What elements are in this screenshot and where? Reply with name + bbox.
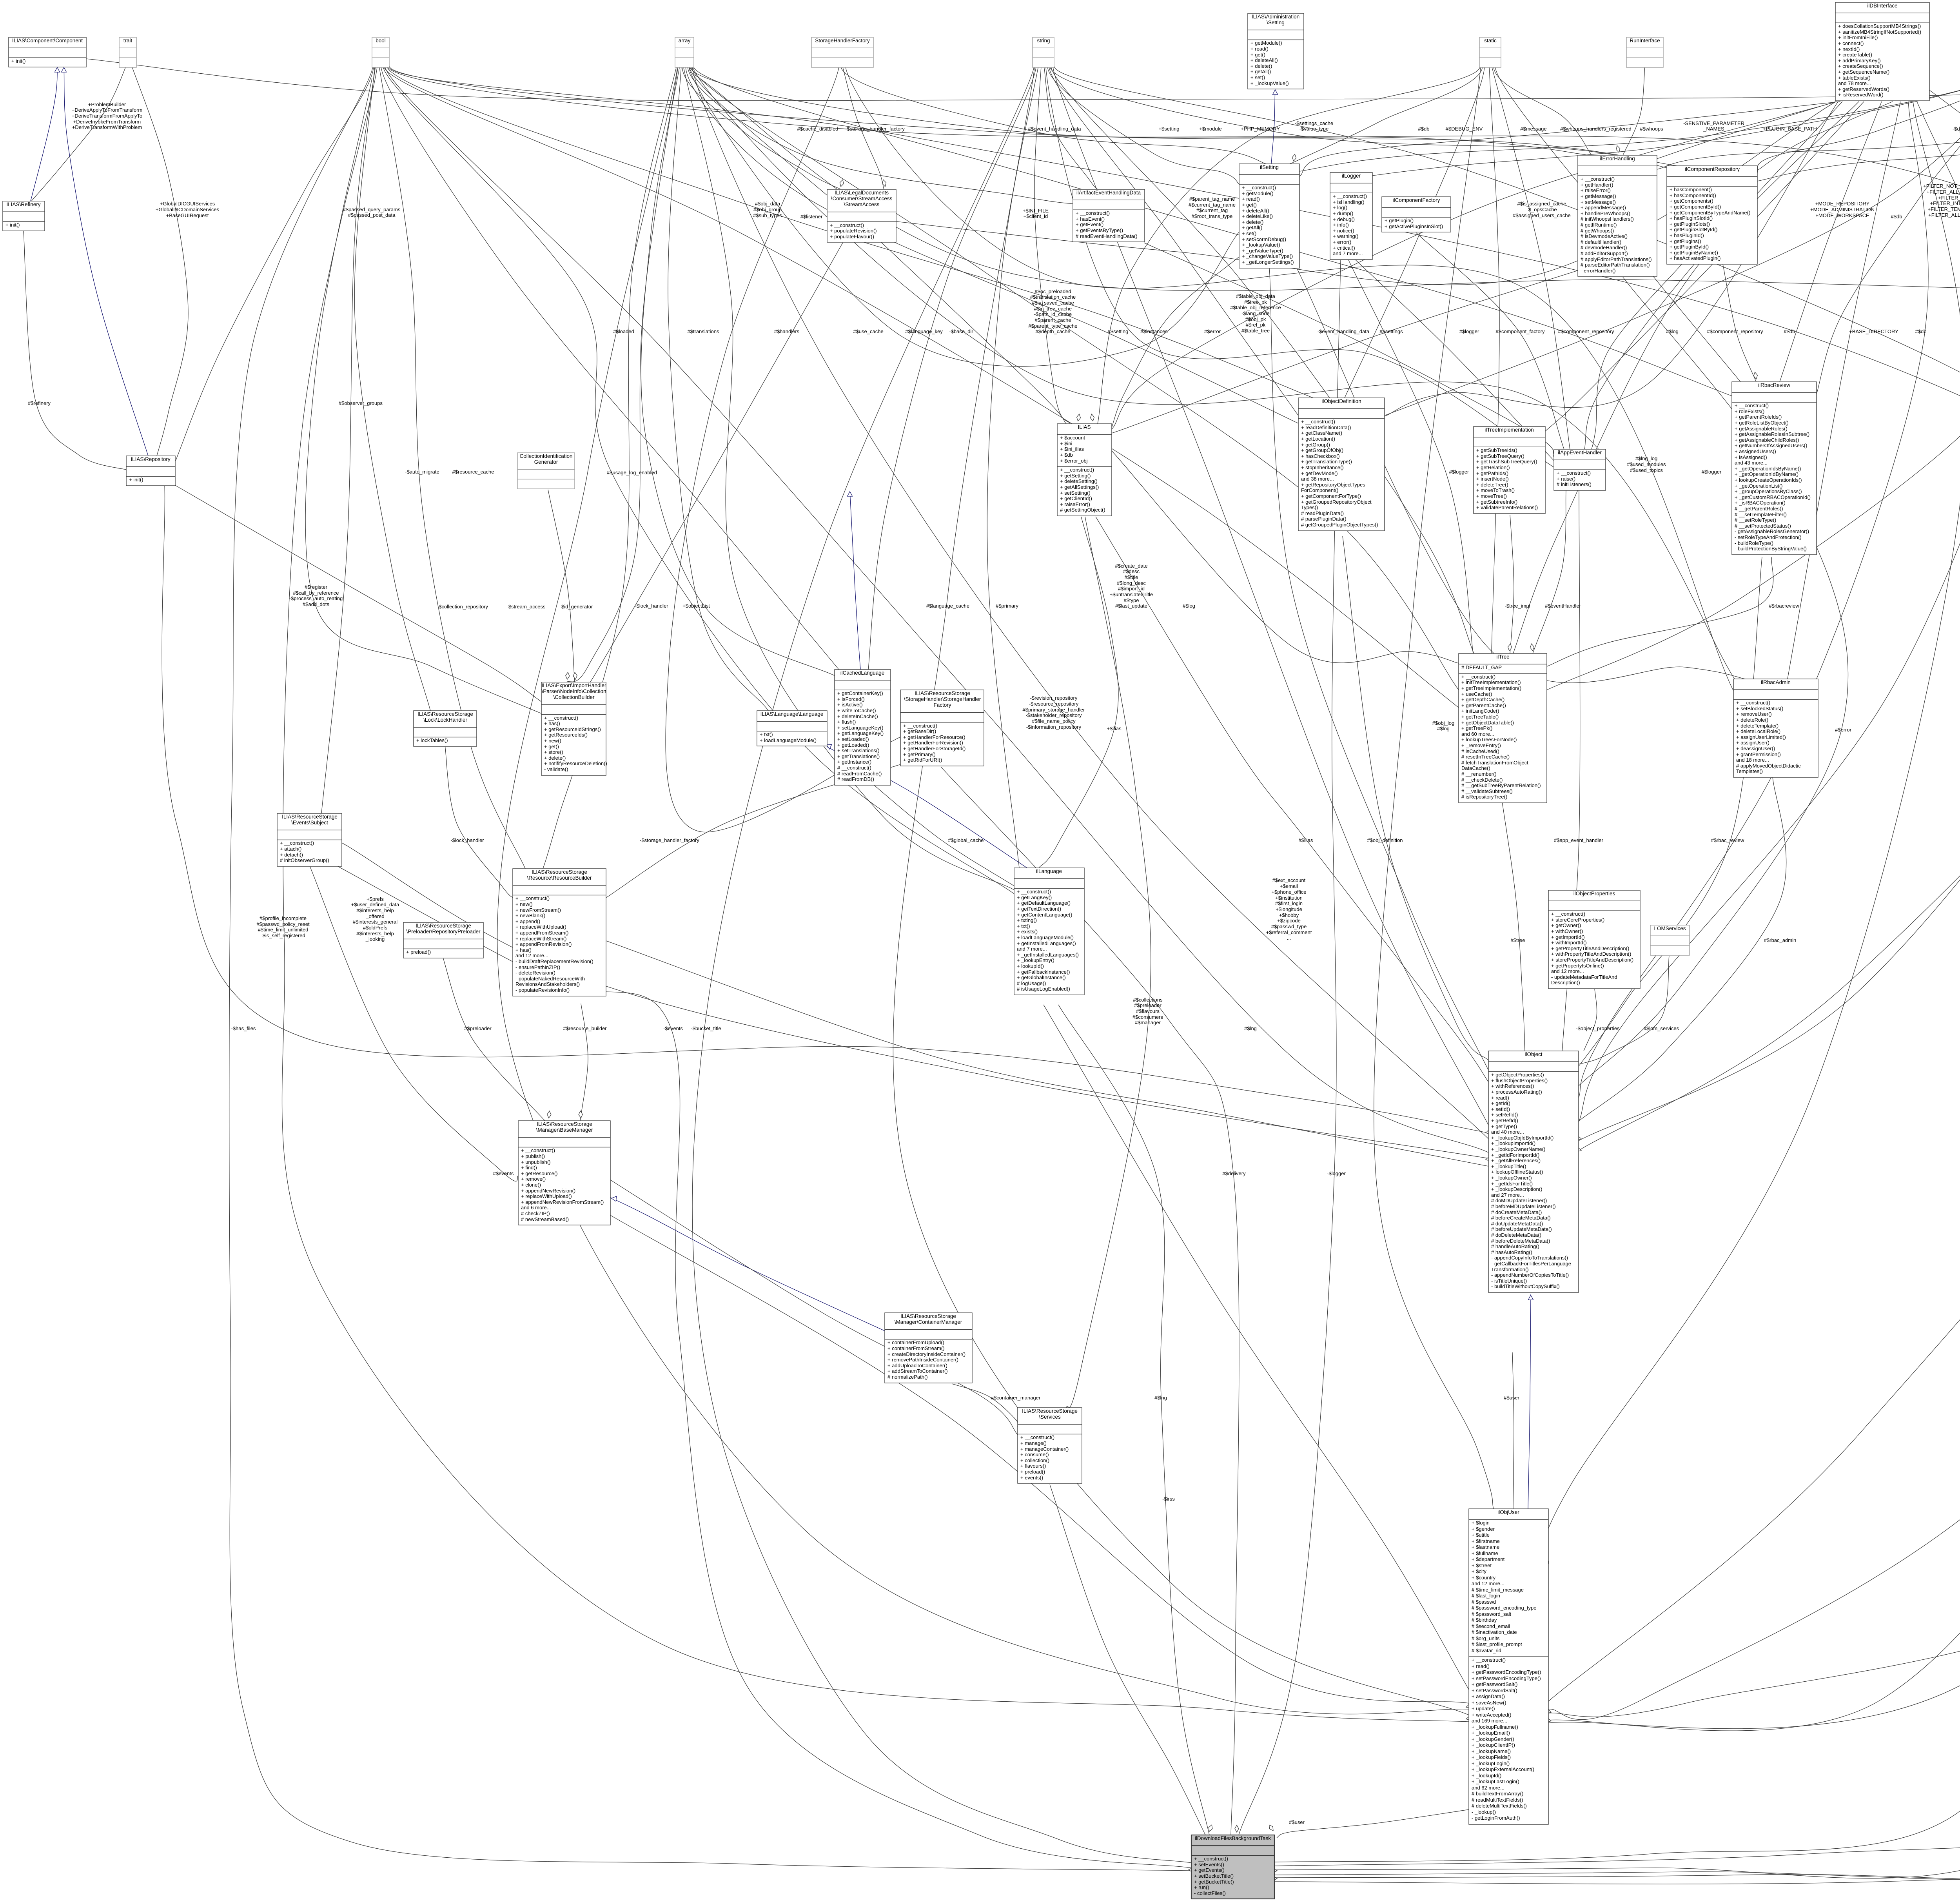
wire ilDBInterface to ilTree <box>1513 102 1859 653</box>
svg-text:+ deleteAll(): + deleteAll() <box>1242 208 1269 214</box>
wire ilErrorHandling to ilObject error <box>1579 277 1848 1086</box>
label +PLUGIN_BASE_PATH <box>1763 126 1817 132</box>
svg-text:+ $city: + $city <box>1472 1568 1486 1574</box>
svg-text:+ getAll(): + getAll() <box>1242 225 1262 230</box>
svg-text:+ getDepthCache(): + getDepthCache() <box>1461 697 1504 702</box>
svg-text:#$time_limit_unlimited: #$time_limit_unlimited <box>258 927 309 933</box>
junction aggregation diamond <box>1530 644 1534 651</box>
svg-text:+ _lookupFullname(): + _lookupFullname() <box>1472 1724 1518 1730</box>
wire band ilDBInterface to ilObjectDefinition <box>1385 102 1838 416</box>
wire const to ilRbacReview <box>1817 67 1960 394</box>
class ILIAS\Refinery <box>3 201 45 231</box>
class ilTree <box>1459 653 1547 803</box>
svg-text:and 12 more...: and 12 more... <box>515 953 548 958</box>
svg-text:+ getBucketTitle(): + getBucketTitle() <box>1194 1879 1234 1885</box>
label -$revision_repository <box>1023 695 1085 730</box>
svg-text:+ getPropertyIsOnline(): + getPropertyIsOnline() <box>1551 963 1604 969</box>
svg-text:#$first_login: #$first_login <box>1275 900 1303 906</box>
svg-text:+ getComponentById(): + getComponentById() <box>1670 204 1721 210</box>
svg-text:+ setMessage(): + setMessage() <box>1581 199 1616 205</box>
svg-text:+ isHandling(): + isHandling() <box>1333 199 1365 205</box>
label #$app_event_handler <box>1554 837 1603 843</box>
svg-text:+ $gender: + $gender <box>1472 1526 1495 1532</box>
svg-text:+ flush(): + flush() <box>837 719 856 725</box>
svg-text:#$in_tree_cache: #$in_tree_cache <box>1034 306 1072 312</box>
svg-text:#$logger: #$logger <box>1449 469 1469 475</box>
svg-text:# $password_salt: # $password_salt <box>1472 1611 1512 1617</box>
svg-text:#$whoops_handlers_registered: #$whoops_handlers_registered <box>1560 126 1631 132</box>
svg-text:+ getHandlerForStorageId(): + getHandlerForStorageId() <box>903 746 965 751</box>
svg-text:+ appendNewRevisionFromStream(: + appendNewRevisionFromStream() <box>521 1199 604 1205</box>
svg-text:+ getDevMode(): + getDevMode() <box>1301 470 1338 476</box>
wire ilLanguage to ilObjUser lng <box>1044 1005 1469 1690</box>
wire const to ilObject table consts <box>1579 67 1960 1141</box>
wire array to ilRbacReview <box>693 66 1732 396</box>
svg-text:+ loadLanguageModule(): + loadLanguageModule() <box>760 737 817 743</box>
svg-text:+ stopInheritance(): + stopInheritance() <box>1301 465 1344 470</box>
svg-text:#$language_key: #$language_key <box>905 328 943 334</box>
svg-text:+ _lookupLastLogin(): + _lookupLastLogin() <box>1472 1779 1519 1784</box>
svg-text:+ assignUserLimited(): + assignUserLimited() <box>1736 734 1786 740</box>
svg-text:- getAssignableRolesGenerator(: - getAssignableRolesGenerator() <box>1735 528 1809 534</box>
svg-text:#$lng_log: #$lng_log <box>1635 456 1657 461</box>
svg-text:+ initTreeImplementation(): + initTreeImplementation() <box>1461 679 1521 685</box>
svg-text:#$resource_cache: #$resource_cache <box>452 469 494 475</box>
svg-text:+ txt(): + txt() <box>1017 923 1030 929</box>
wire LOMServices to ilObject lom_services <box>1579 956 1669 1064</box>
junction aggregation diamond <box>1486 1130 1492 1134</box>
svg-text:+ readDefinitionData(): + readDefinitionData() <box>1301 425 1351 430</box>
svg-text:+ getPluginSlots(): + getPluginSlots() <box>1670 221 1710 227</box>
svg-text:+ getType(): + getType() <box>1491 1123 1517 1129</box>
svg-text:...: ... <box>1287 935 1291 941</box>
svg-text:- updateMetadataForTitleAnd: - updateMetadataForTitleAnd <box>1551 974 1617 980</box>
svg-text:#$lng: #$lng <box>1244 1025 1257 1031</box>
junction inheritance arrow <box>1273 90 1278 94</box>
wire array to ilObjUser <box>497 66 1469 1714</box>
svg-text:+ exists(): + exists() <box>1017 929 1038 935</box>
svg-text:#$interests_help: #$interests_help <box>356 907 394 913</box>
svg-text:+ setId(): + setId() <box>1491 1106 1510 1112</box>
label -$stream_access <box>507 604 546 610</box>
wire array to CollectionBuilder <box>566 66 678 682</box>
svg-text:+ appendMessage(): + appendMessage() <box>1581 205 1626 211</box>
wire ContainerManager to Services container_manager <box>952 1384 1018 1427</box>
svg-text:+ getSubtreeInfo(): + getSubtreeInfo() <box>1476 499 1517 505</box>
svg-text:string: string <box>1037 38 1050 44</box>
svg-text:#$assigned_users_cache: #$assigned_users_cache <box>1513 212 1570 218</box>
wire ilAppEventHandler to ilObject app_event_handler <box>1562 490 1580 1051</box>
svg-text:and 43 more...: and 43 more... <box>1735 460 1768 466</box>
svg-text:#$oldPrefs: #$oldPrefs <box>363 925 388 931</box>
svg-text:ILIAS\Export\ImportHandler: ILIAS\Export\ImportHandler <box>541 682 606 688</box>
svg-text:+ getModule(): + getModule() <box>1250 40 1282 46</box>
svg-text:+ _lookupId(): + _lookupId() <box>1472 1773 1501 1779</box>
svg-text:+ getSubTreeIds(): + getSubTreeIds() <box>1476 447 1517 453</box>
wire ilLanguage extends Language <box>827 747 1027 868</box>
svg-text:+ moveToTrash(): + moveToTrash() <box>1476 487 1515 493</box>
label -$storage_handler_factory <box>640 837 699 843</box>
wire ILIAS to ilObject ilias <box>1096 517 1488 1082</box>
svg-text:# readFromDB(): # readFromDB() <box>837 776 874 782</box>
svg-text:+ hasPluginSlotId(): + hasPluginSlotId() <box>1670 215 1713 221</box>
svg-text:- validate(): - validate() <box>544 766 568 772</box>
svg-text:+ txtlng(): + txtlng() <box>1017 917 1037 923</box>
class ilObjectDefinition <box>1298 398 1385 531</box>
svg-text:#$listener: #$listener <box>800 214 823 220</box>
class ilRbacReview <box>1732 382 1817 555</box>
svg-text:Description(): Description() <box>1551 980 1580 985</box>
label +$ilias <box>1107 726 1122 731</box>
svg-text:+ has(): + has() <box>515 947 532 953</box>
label #$db <box>1891 214 1902 220</box>
svg-text:#$import_id: #$import_id <box>1118 586 1145 592</box>
svg-text:bool: bool <box>376 38 386 44</box>
svg-text:+$user_defined_data: +$user_defined_data <box>351 902 399 907</box>
svg-text:# checkZIP(): # checkZIP() <box>521 1211 550 1216</box>
svg-text:- appendCopyInfoToTranslations: - appendCopyInfoToTranslations() <box>1491 1255 1568 1261</box>
junction aggregation diamond <box>1292 154 1296 161</box>
svg-text:+DeriveTransformFromApplyTo: +DeriveTransformFromApplyTo <box>72 113 142 119</box>
svg-text:+ getObjectDataTable(): + getObjectDataTable() <box>1461 720 1514 726</box>
svg-text:-$has_files: -$has_files <box>231 1025 256 1031</box>
svg-text:#$use_cache: #$use_cache <box>853 328 883 334</box>
svg-text:+ hasActivatedPlugin(): + hasActivatedPlugin() <box>1670 255 1720 261</box>
wire static to ilRbacReview <box>1495 66 1740 382</box>
svg-text:#$component_repository: #$component_repository <box>1707 328 1763 334</box>
svg-text:+ isActive(): + isActive() <box>837 702 863 708</box>
label #$eventHandler <box>1545 603 1581 609</box>
svg-text:+ attach(): + attach() <box>280 846 301 852</box>
svg-text:\Consumer\StreamAccess: \Consumer\StreamAccess <box>831 196 893 201</box>
wire array to ilObject <box>692 66 1488 1139</box>
class ilRbacAdmin <box>1733 679 1818 777</box>
svg-text:+DeriveApplyToFromTransform: +DeriveApplyToFromTransform <box>72 107 142 113</box>
svg-text:+ getRelation(): + getRelation() <box>1476 465 1510 470</box>
svg-text:- populateRevisionInfo(): - populateRevisionInfo() <box>515 987 570 993</box>
wire ilLanguage to task lng <box>1058 1005 1209 1835</box>
svg-text:+ _lookupName(): + _lookupName() <box>1472 1748 1511 1754</box>
svg-text:+ $lastname: + $lastname <box>1472 1544 1499 1550</box>
class Services <box>1018 1408 1082 1483</box>
svg-text:+ getParentRoleIds(): + getParentRoleIds() <box>1735 414 1782 420</box>
svg-text:LOMServices: LOMServices <box>1654 926 1686 931</box>
svg-text:ILIAS\Repository: ILIAS\Repository <box>131 456 171 462</box>
wire array to Language objectList <box>668 66 768 711</box>
svg-text:ILIAS\Refinery: ILIAS\Refinery <box>6 201 40 207</box>
svg-text:+$phone_office: +$phone_office <box>1271 889 1306 895</box>
svg-text:# getGroupedPluginObjectTypes(: # getGroupedPluginObjectTypes() <box>1301 522 1378 528</box>
svg-text:+ manageContainer(): + manageContainer() <box>1020 1446 1069 1452</box>
label #$rbac_admin <box>1764 937 1796 943</box>
svg-text:- isTitleUnique(): - isTitleUnique() <box>1491 1278 1527 1284</box>
label #$obj_definition <box>1367 837 1403 843</box>
class ILIAS\Language\Language <box>757 711 827 746</box>
svg-text:+ _lookupOwnerName(): + _lookupOwnerName() <box>1491 1146 1545 1152</box>
label #$resource_builder <box>563 1025 607 1031</box>
svg-text:+ getRoleListByObject(): + getRoleListByObject() <box>1735 420 1789 426</box>
junction aggregation diamond <box>1754 372 1758 379</box>
label #$user <box>1289 1819 1305 1825</box>
svg-text:- buildTitleWithoutCopySuffix(: - buildTitleWithoutCopySuffix() <box>1491 1283 1560 1289</box>
svg-text:+ replaceWithUpload(): + replaceWithUpload() <box>521 1193 572 1199</box>
wire string to ilObjUser <box>893 66 1469 1715</box>
wire ILIAS to ilLanguage ilias <box>1039 517 1118 868</box>
junction aggregation diamond <box>1270 1877 1277 1880</box>
svg-text:ilCachedLanguage: ilCachedLanguage <box>840 670 885 676</box>
svg-text:+ $account: + $account <box>1060 435 1085 441</box>
svg-text:-$lock_handler: -$lock_handler <box>450 837 484 843</box>
svg-text:+$INI_FILE: +$INI_FILE <box>1023 208 1049 214</box>
svg-text:+ getPasswordSalt(): + getPasswordSalt() <box>1472 1681 1517 1687</box>
svg-text:+ getHandler(): + getHandler() <box>1581 182 1613 188</box>
wire ILIAS\Repository to CollectionBuilder <box>175 485 541 702</box>
svg-text:-$bucket_title: -$bucket_title <box>691 1025 721 1031</box>
svg-text:+ read(): + read() <box>1242 196 1260 202</box>
svg-text:+GlobalDICDomainServices: +GlobalDICDomainServices <box>156 207 220 212</box>
wire band int to ilComponentRepository <box>1757 67 1960 181</box>
junction inheritance arrow <box>55 67 60 72</box>
class Subject <box>277 813 342 866</box>
svg-text:#$cache_disabled: #$cache_disabled <box>797 126 838 132</box>
wire ilObjectDIC to task object_dic <box>1274 234 1960 1862</box>
svg-text:DataCache(): DataCache() <box>1461 765 1490 771</box>
svg-text:ilObjectProperties: ilObjectProperties <box>1573 891 1615 897</box>
svg-text:#$handlers: #$handlers <box>774 328 800 334</box>
class ilArtifactEventHandlingData <box>1073 189 1145 242</box>
wire rail Component to int <box>86 59 1960 101</box>
svg-text:+ _lookupOwner(): + _lookupOwner() <box>1491 1175 1532 1181</box>
svg-text:+$longitude: +$longitude <box>1276 906 1302 912</box>
svg-text:#$translations: #$translations <box>688 328 719 334</box>
svg-text:- collectFiles(): - collectFiles() <box>1194 1890 1226 1896</box>
svg-text:+ getGlobalInstance(): + getGlobalInstance() <box>1017 975 1066 980</box>
svg-text:# $avatar_rid: # $avatar_rid <box>1472 1648 1501 1653</box>
svg-text:+MODE_REPOSITORY: +MODE_REPOSITORY <box>1815 201 1870 207</box>
svg-text:#$depth_cache: #$depth_cache <box>1036 328 1071 334</box>
class LockHandler <box>414 711 477 746</box>
svg-text:# hasAutoRating(): # hasAutoRating() <box>1491 1249 1532 1255</box>
svg-text:+ initFromIniFile(): + initFromIniFile() <box>1838 34 1878 40</box>
wire band ilDBInterface to StreamAccess <box>896 102 1836 285</box>
svg-text:+ getGroup(): + getGroup() <box>1301 442 1330 448</box>
class ilDownloadFilesBackgroundTask <box>1191 1835 1274 1899</box>
junction aggregation diamond <box>1486 1157 1493 1161</box>
wire static to ilSetting <box>1290 66 1483 164</box>
class ILIAS\Component\Component <box>9 37 86 67</box>
svg-text:\CollectionBuilder: \CollectionBuilder <box>553 694 595 700</box>
svg-text:- getCallbackForTitlesPerLangu: - getCallbackForTitlesPerLanguage <box>1491 1261 1571 1267</box>
svg-text:+ getActivePluginsInSlot(): + getActivePluginsInSlot() <box>1385 223 1443 229</box>
svg-text:+ deleteTree(): + deleteTree() <box>1476 482 1508 488</box>
svg-text:+ removeUser(): + removeUser() <box>1736 711 1772 717</box>
label #$handlers <box>774 328 800 334</box>
svg-text:#$parent_tag_name: #$parent_tag_name <box>1189 196 1235 202</box>
svg-text:ilSetting: ilSetting <box>1260 164 1279 170</box>
label #$error <box>1204 328 1221 334</box>
wire bool to task has_files <box>229 66 1191 1871</box>
class ResourceBuilder <box>513 869 606 996</box>
class ILIAS\Repository <box>126 456 175 486</box>
wire ilDBInterface to ILIAS db <box>1112 102 1837 429</box>
svg-text:+ getPathIds(): + getPathIds() <box>1476 470 1508 476</box>
class ilObject <box>1488 1051 1579 1292</box>
svg-text:\Resource\ResourceBuilder: \Resource\ResourceBuilder <box>527 875 592 881</box>
svg-text:ILIAS\Administration: ILIAS\Administration <box>1252 14 1299 20</box>
svg-text:+ getPrimary(): + getPrimary() <box>903 751 936 757</box>
svg-text:+ set(): + set() <box>1250 74 1265 80</box>
class ContainerManager <box>885 1313 972 1383</box>
svg-text:+FILTER_ALL_GLOBAL: +FILTER_ALL_GLOBAL <box>1926 189 1960 195</box>
svg-text:+ _lookupObjIdByImportId(): + _lookupObjIdByImportId() <box>1491 1135 1553 1141</box>
svg-text:+$client_id: +$client_id <box>1024 213 1048 219</box>
svg-text:+ __construct(): + __construct() <box>903 723 937 729</box>
svg-text:+ getAssignableRoles(): + getAssignableRoles() <box>1735 426 1788 432</box>
class StorageHandlerFactory <box>811 37 873 67</box>
wire ilObjectDefinition to ilObject obj_definition <box>1343 536 1488 1060</box>
svg-text:+FILTER_ALL: +FILTER_ALL <box>1938 195 1960 201</box>
wire ilTreeImplementation to ilTree tree_impl <box>1510 515 1514 653</box>
svg-text:+ _getAllReferences(): + _getAllReferences() <box>1491 1158 1541 1163</box>
svg-text:#$consumers: #$consumers <box>1132 1014 1163 1020</box>
svg-text:and 40 more...: and 40 more... <box>1491 1129 1524 1135</box>
svg-text:+ raiseError(): + raiseError() <box>1060 501 1090 507</box>
junction inheritance arrow <box>1528 1295 1534 1300</box>
svg-text:+ getTreeImplementation(): + getTreeImplementation() <box>1461 685 1521 691</box>
svg-text:#$tree_pk: #$tree_pk <box>1244 299 1267 305</box>
label #$parent_tag_name <box>1189 196 1236 219</box>
wire ContainerManager extends BaseManager <box>610 1198 885 1331</box>
svg-text:+ initLangCode(): + initLangCode() <box>1461 708 1499 714</box>
wire Subject to BaseManager events <box>310 866 518 1181</box>
label #$logger <box>1459 328 1479 334</box>
svg-text:#$eventHandler: #$eventHandler <box>1545 603 1581 609</box>
svg-text:# __setTemplateFilter(): # __setTemplateFilter() <box>1735 512 1787 517</box>
svg-text:# beforeCreateMetaData(): # beforeCreateMetaData() <box>1491 1215 1551 1221</box>
svg-text:#$db: #$db <box>1418 126 1430 132</box>
svg-text:+ run(): + run() <box>1194 1884 1209 1890</box>
svg-text:ilRbacAdmin: ilRbacAdmin <box>1761 679 1791 685</box>
svg-text:+ append(): + append() <box>515 918 540 924</box>
svg-text:+ getInstance(): + getInstance() <box>837 759 871 765</box>
svg-text:#$db: #$db <box>1784 328 1795 334</box>
svg-text:+ _lookupDescription(): + _lookupDescription() <box>1491 1186 1542 1192</box>
svg-text:+ hasComponentId(): + hasComponentId() <box>1670 192 1716 198</box>
svg-text:+ _getIdsForTitle(): + _getIdsForTitle() <box>1491 1181 1533 1187</box>
svg-text:# $password_encoding_type: # $password_encoding_type <box>1472 1605 1537 1611</box>
label #$db <box>1915 328 1927 334</box>
wire band static to ILIAS <box>1098 66 1480 424</box>
svg-text:+ assignData(): + assignData() <box>1472 1693 1505 1699</box>
svg-text:trait: trait <box>123 38 132 44</box>
svg-text:# getSettingObject(): # getSettingObject() <box>1060 507 1105 513</box>
svg-text:and 7 more...: and 7 more... <box>1333 250 1363 256</box>
svg-text:+ populateFlavour(): + populateFlavour() <box>830 234 874 240</box>
svg-text:- getLoginFromAuth(): - getLoginFromAuth() <box>1472 1815 1520 1821</box>
svg-text:+ manage(): + manage() <box>1020 1440 1047 1446</box>
label -$dic <box>1953 126 1960 132</box>
svg-text:- buildProtectionByStringValue: - buildProtectionByStringValue() <box>1735 546 1807 552</box>
svg-text:# addEditorSupport(): # addEditorSupport() <box>1581 250 1628 256</box>
svg-text:+ $db: + $db <box>1060 452 1073 458</box>
wire string to ilCachedLanguage <box>868 66 1036 670</box>
svg-text:+$ilias: +$ilias <box>1107 726 1122 731</box>
svg-text:+ getModule(): + getModule() <box>1242 191 1274 196</box>
svg-text:_offered: _offered <box>365 913 384 919</box>
svg-text:-$stream_access: -$stream_access <box>507 604 546 610</box>
label +PHP_MEMORY <box>1241 126 1280 132</box>
svg-text:# __setRoleType(): # __setRoleType() <box>1735 517 1776 523</box>
label #$ext_account <box>1266 877 1312 941</box>
svg-text:+ detach(): + detach() <box>280 852 303 858</box>
wire ilObjUser extends ilObject <box>1528 1294 1531 1509</box>
wire ilDBInterface to ilObject db <box>1579 102 1928 1098</box>
svg-text:+ getPropertyTitleAndDescripti: + getPropertyTitleAndDescription() <box>1551 946 1629 951</box>
svg-text:+ removePathInsideContainer(): + removePathInsideContainer() <box>887 1357 958 1363</box>
label #$ilias <box>1299 837 1313 843</box>
label #$instances <box>1140 328 1168 334</box>
wire trait to ILIAS\Refinery <box>31 66 126 201</box>
junction aggregation diamond <box>547 1111 551 1118</box>
label +MODE_REPOSITORY <box>1810 201 1875 218</box>
wire bool to ILIAS\Repository <box>176 66 374 461</box>
svg-text:ILIAS\ResourceStorage: ILIAS\ResourceStorage <box>282 814 338 820</box>
svg-text:+ _isRBACOperation(): + _isRBACOperation() <box>1735 500 1786 506</box>
svg-text:ILIAS\ResourceStorage: ILIAS\ResourceStorage <box>417 711 473 717</box>
wire CollectionIdentificationGenerator to CollectionBuilder <box>548 490 575 682</box>
svg-text:# applyMovedObjectDidactic: # applyMovedObjectDidactic <box>1736 763 1801 769</box>
label -$irss <box>1162 1496 1175 1502</box>
svg-text:ilComponentRepository: ilComponentRepository <box>1685 166 1740 172</box>
svg-text:RevisionsAndStakeholders(): RevisionsAndStakeholders() <box>515 981 580 987</box>
label #$loaded <box>613 328 634 334</box>
svg-text:+ useCache(): + useCache() <box>1461 691 1492 697</box>
svg-text:+ replaceWithStream(): + replaceWithStream() <box>515 936 566 942</box>
wire array to ilCachedLanguage translations <box>641 66 836 676</box>
svg-text:# readPluginData(): # readPluginData() <box>1301 510 1344 516</box>
class ilObjUser <box>1469 1509 1548 1824</box>
svg-text:+ getResourceIdStrings(): + getResourceIdStrings() <box>544 726 601 732</box>
wire string to ilObject <box>1053 66 1488 1125</box>
svg-text:+ getGroupOfObj(): + getGroupOfObj() <box>1301 447 1343 453</box>
label -$events <box>663 1025 683 1031</box>
svg-text:ILIAS\ResourceStorage: ILIAS\ResourceStorage <box>416 923 471 929</box>
svg-text:+ getEvent(): + getEvent() <box>1076 221 1103 227</box>
label #$db <box>1418 126 1430 132</box>
svg-text:-$value_type: -$value_type <box>1299 126 1328 132</box>
wire string to ilTree <box>1051 66 1474 653</box>
svg-text:+ delete(): + delete() <box>544 755 566 761</box>
svg-text:-$base_dir: -$base_dir <box>949 328 973 334</box>
svg-text:#$parent_cache: #$parent_cache <box>1034 317 1071 323</box>
svg-text:+ lookupOfflineStatus(): + lookupOfflineStatus() <box>1491 1169 1543 1175</box>
svg-text:+ withReferences(): + withReferences() <box>1491 1083 1534 1089</box>
svg-text:#$profile_incomplete: #$profile_incomplete <box>260 915 307 921</box>
svg-text:#$ilias: #$ilias <box>1299 837 1313 843</box>
svg-text:+ createSequence(): + createSequence() <box>1838 63 1883 69</box>
wire ilCachedLanguage extends CacheRequest <box>850 491 860 670</box>
svg-text:-$path_id_cache: -$path_id_cache <box>1034 311 1072 317</box>
svg-text:\Parser\NodeInfo\Collection: \Parser\NodeInfo\Collection <box>541 688 606 694</box>
svg-text:#$container_manager: #$container_manager <box>991 1395 1041 1401</box>
svg-text:+ populateRevision(): + populateRevision() <box>830 228 877 234</box>
svg-text:+ setScormDebug(): + setScormDebug() <box>1242 236 1286 242</box>
svg-text:# $second_email: # $second_email <box>1472 1623 1510 1629</box>
svg-text:+ __construct(): + __construct() <box>1736 700 1770 706</box>
wire ilDBInterface to ilGlobalTemplateInterface <box>1929 90 1960 287</box>
svg-text:#$interests_help: #$interests_help <box>356 931 394 936</box>
svg-text:+ $login: + $login <box>1472 1520 1490 1526</box>
